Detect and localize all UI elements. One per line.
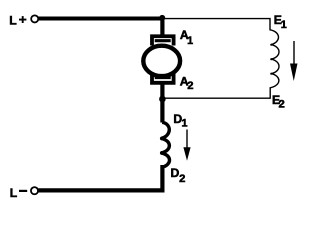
svg-text:L: L: [10, 186, 18, 200]
svg-text:D: D: [171, 166, 180, 180]
svg-text:1: 1: [281, 19, 287, 31]
svg-text:2: 2: [179, 173, 185, 185]
svg-text:1: 1: [182, 118, 188, 130]
svg-text:2: 2: [187, 80, 193, 92]
svg-text:2: 2: [278, 99, 284, 111]
svg-text:L: L: [9, 13, 17, 27]
svg-text:1: 1: [187, 35, 193, 47]
